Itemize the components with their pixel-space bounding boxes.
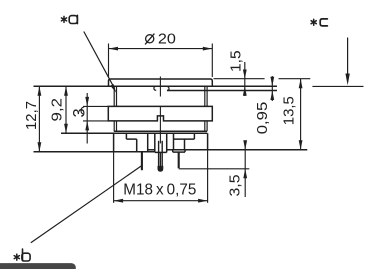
svg-text:3,5: 3,5 <box>226 175 243 197</box>
svg-text:9,2: 9,2 <box>49 98 66 122</box>
svg-text:0,95: 0,95 <box>254 102 271 135</box>
svg-text:M18 x 0,75: M18 x 0,75 <box>123 182 196 199</box>
svg-text:1,5: 1,5 <box>228 50 245 71</box>
svg-text:12,7: 12,7 <box>23 101 40 130</box>
svg-text:20: 20 <box>158 31 176 48</box>
svg-text:13,5: 13,5 <box>280 96 297 125</box>
svg-text:3: 3 <box>70 108 88 117</box>
